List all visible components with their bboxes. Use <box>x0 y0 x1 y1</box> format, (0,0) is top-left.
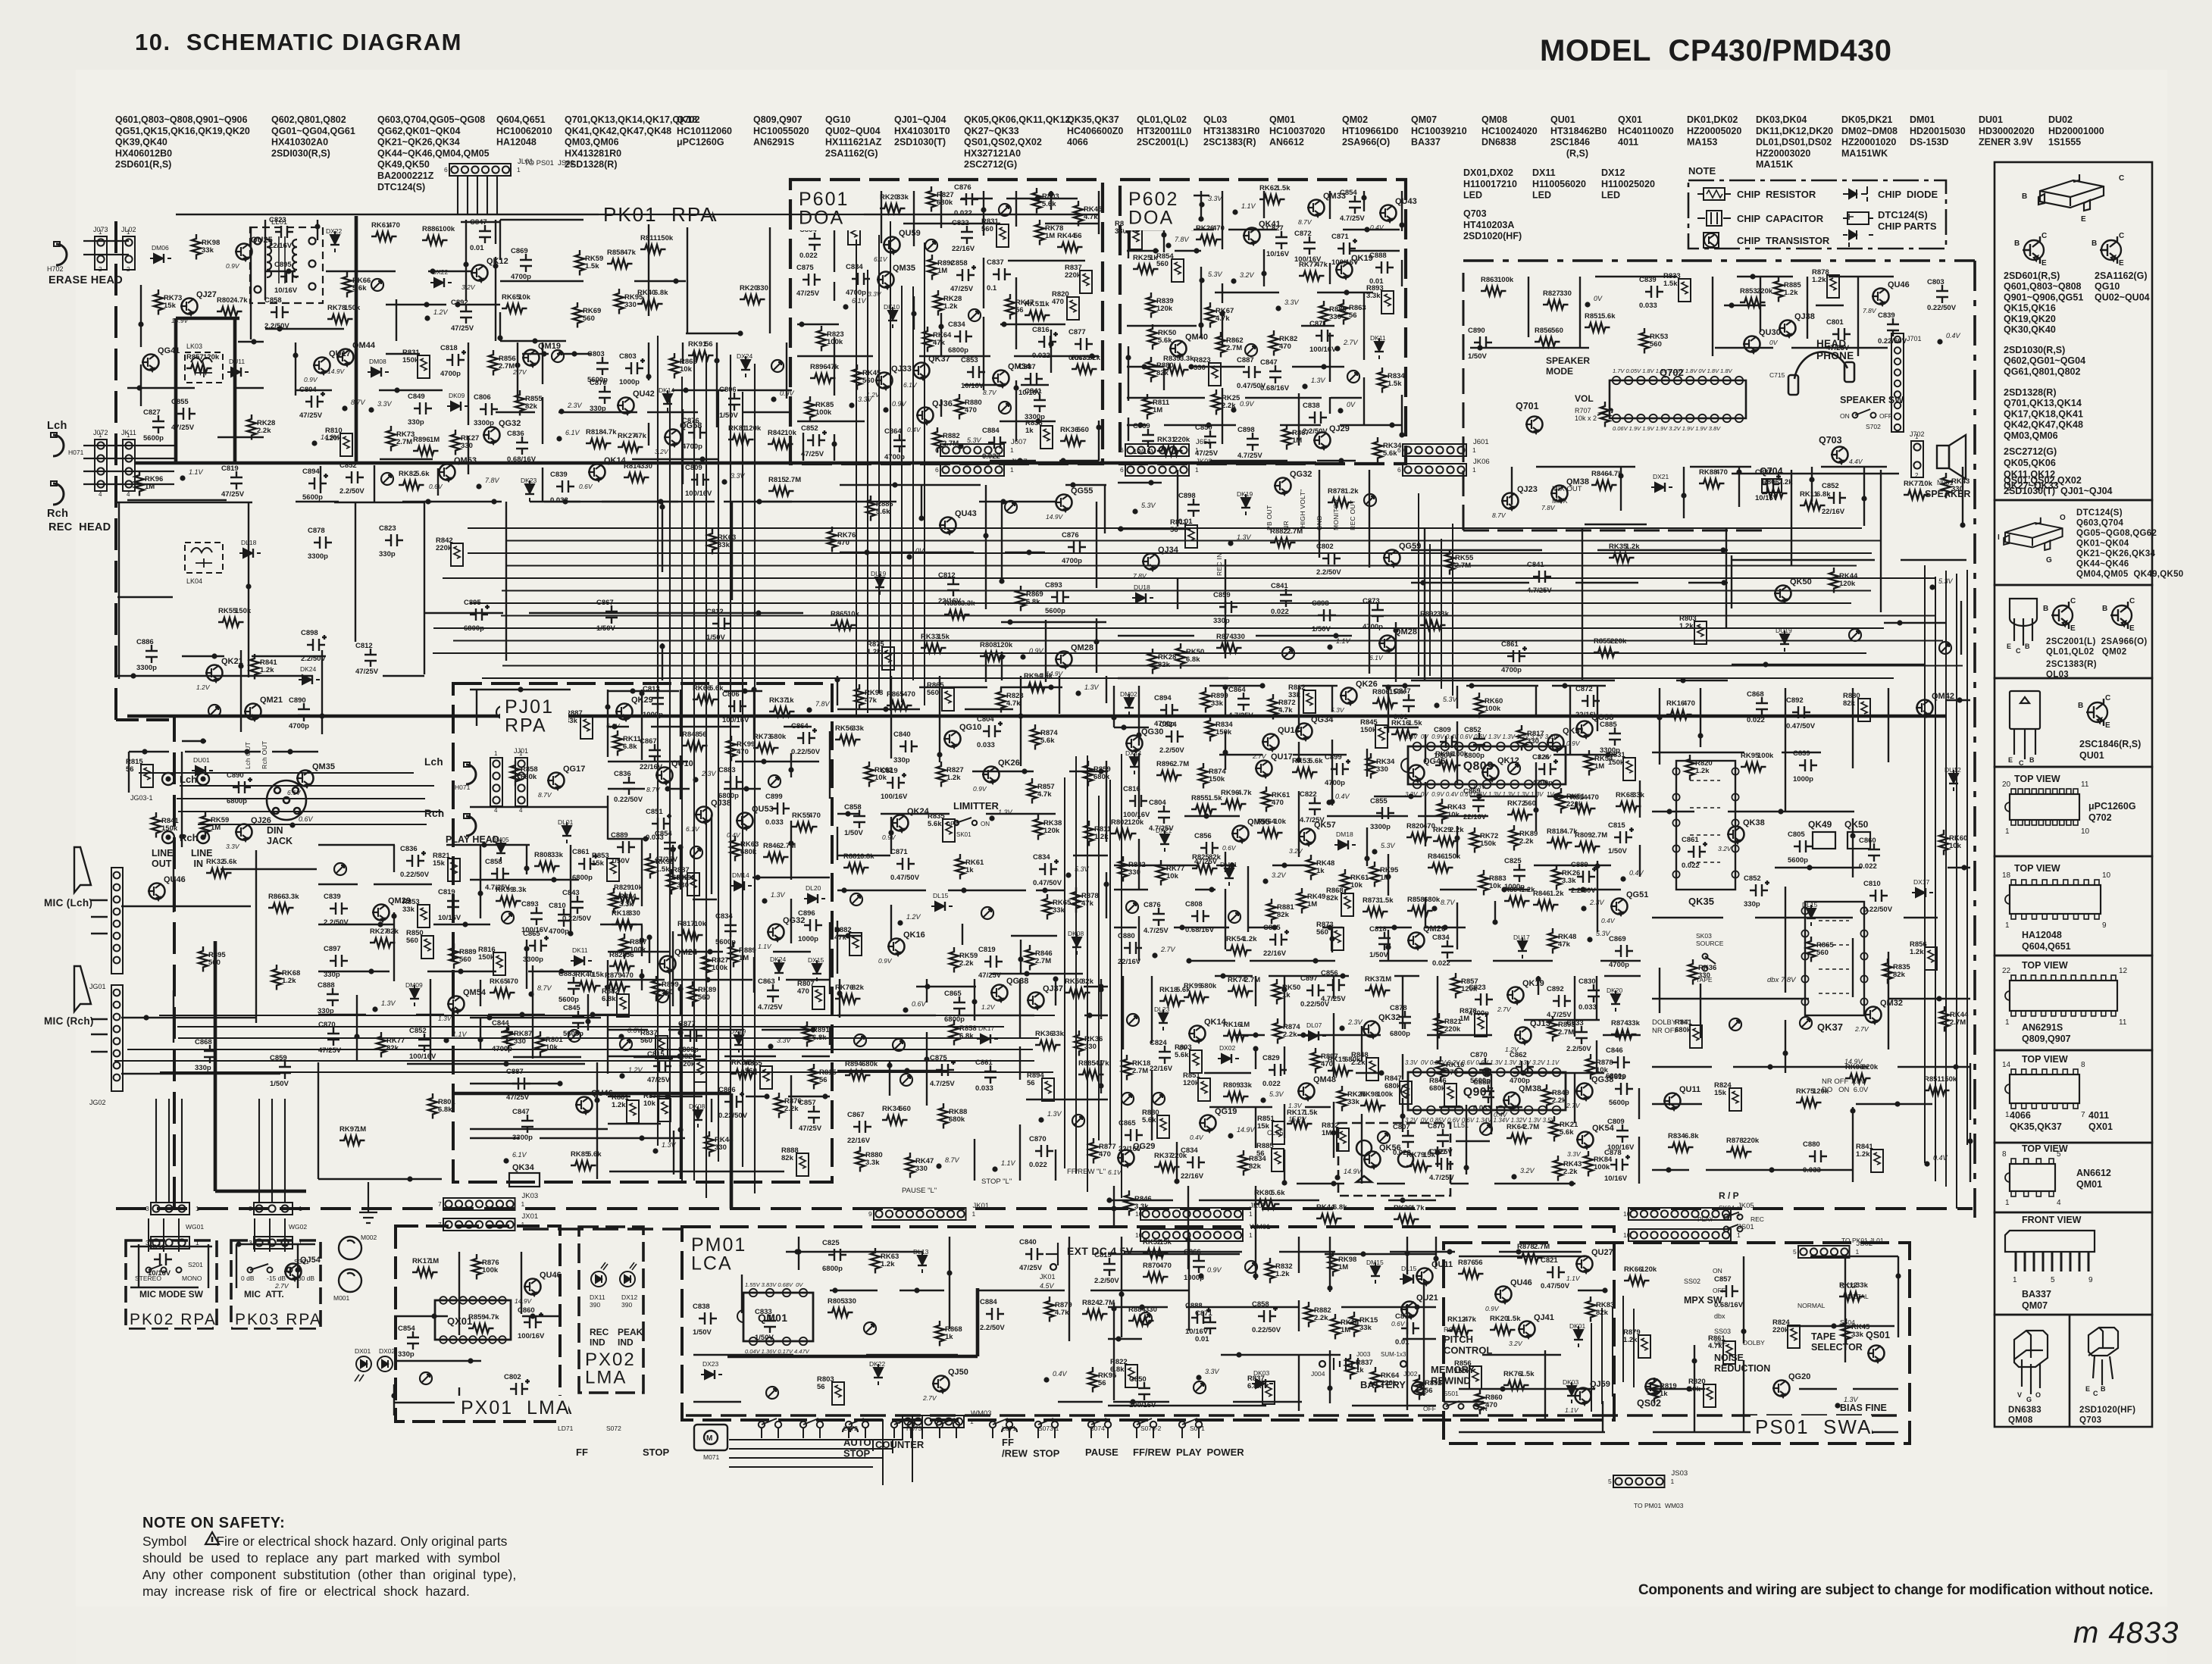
svg-text:2SC2001(L) 2SA966(O): 2SC2001(L) 2SA966(O) <box>2046 637 2148 646</box>
resistor R837 (chip) <box>1080 271 1092 293</box>
svg-text:REC: REC <box>590 1327 609 1337</box>
svg-text:J003: J003 <box>1356 1350 1371 1358</box>
svg-text:330p: 330p <box>1213 617 1230 625</box>
svg-text:5.3V: 5.3V <box>1075 865 1090 873</box>
wire jl01 drop <box>458 176 497 215</box>
svg-text:C839: C839 <box>1878 311 1895 320</box>
svg-text:120k: 120k <box>1641 1265 1657 1274</box>
svg-text:C876: C876 <box>682 417 699 425</box>
svg-text:C812: C812 <box>706 608 724 616</box>
svg-text:33k: 33k <box>1856 1281 1869 1290</box>
resistor RK64 <box>923 327 932 352</box>
svg-text:330: 330 <box>756 284 768 292</box>
svg-text:82k: 82k <box>525 402 538 411</box>
svg-text:470: 470 <box>388 221 400 230</box>
svg-text:2.7M: 2.7M <box>396 438 412 446</box>
svg-text:RK37: RK37 <box>1365 975 1383 984</box>
svg-text:DL18: DL18 <box>241 539 257 546</box>
transistor QJ26 <box>235 824 252 842</box>
wire <box>296 342 792 502</box>
svg-text:E: E <box>2008 756 2013 764</box>
resistor RK78 <box>327 314 353 324</box>
svg-text:JS01: JS01 <box>1738 1223 1754 1231</box>
diode DK24 <box>774 959 784 981</box>
board PK02 RPA <box>126 1240 217 1328</box>
connector WM01 <box>1140 1229 1243 1241</box>
svg-text:4.7k: 4.7k <box>1095 1059 1109 1068</box>
svg-text:2.7M: 2.7M <box>1244 976 1260 984</box>
capacitor C869 <box>1142 429 1154 447</box>
capacitor C807 <box>1402 1130 1414 1148</box>
resistor RK44 <box>1316 1214 1342 1223</box>
svg-text:S072: S072 <box>606 1425 621 1432</box>
svg-text:C818: C818 <box>1369 925 1387 934</box>
node junctions <box>605 687 828 1099</box>
svg-text:DX23: DX23 <box>702 1360 719 1368</box>
svg-text:C876: C876 <box>1062 531 1079 540</box>
svg-text:2.2/50V: 2.2/50V <box>324 918 349 927</box>
svg-text:3.3k: 3.3k <box>1180 355 1194 363</box>
diode DL15 <box>931 902 953 911</box>
svg-text:J601: J601 <box>1473 438 1489 446</box>
svg-text:4.7k: 4.7k <box>1037 790 1052 799</box>
svg-text:QU46: QU46 <box>1510 1278 1532 1287</box>
svg-text:0V: 0V <box>1594 295 1603 302</box>
svg-text:560: 560 <box>1650 340 1662 349</box>
svg-text:QG10: QG10 <box>959 723 981 732</box>
svg-text:DL15: DL15 <box>933 892 949 899</box>
svg-text:-15 dB: -15 dB <box>267 1275 286 1282</box>
svg-text:C852: C852 <box>1744 874 1761 883</box>
svg-text:R879: R879 <box>605 971 622 980</box>
svg-text:10k: 10k <box>1166 872 1179 880</box>
wire <box>797 191 1099 461</box>
LED DX11 <box>591 1262 608 1287</box>
svg-text:SK01: SK01 <box>956 831 971 838</box>
svg-text:R809: R809 <box>1223 1081 1241 1090</box>
svg-text:33k: 33k <box>1288 691 1301 699</box>
svg-text:R863: R863 <box>1481 276 1498 284</box>
wire bundle mid horizontal <box>433 528 1963 678</box>
transistor QU46 <box>524 1279 541 1296</box>
svg-text:0.22/50V: 0.22/50V <box>614 796 643 804</box>
svg-text:2SC2001(L): 2SC2001(L) <box>1137 137 1188 148</box>
svg-text:5.6k: 5.6k <box>415 470 430 478</box>
svg-text:0.22/50V: 0.22/50V <box>1252 1326 1281 1334</box>
trimmer <box>1347 371 1359 383</box>
svg-text:C851: C851 <box>646 808 663 816</box>
transistor QM38 <box>1503 1093 1520 1110</box>
resistor R896 <box>810 374 836 383</box>
trimmer <box>381 473 393 485</box>
resistor RK94 <box>1024 683 1050 692</box>
svg-text:2SDI030(R,S): 2SDI030(R,S) <box>271 148 330 158</box>
svg-text:33k: 33k <box>852 724 865 733</box>
svg-text:1: 1 <box>1472 466 1476 474</box>
capacitor C846 <box>1612 1056 1630 1068</box>
connector JS01 <box>1628 1229 1731 1241</box>
resistor R820 (chip) <box>1704 1384 1716 1407</box>
node junctions <box>639 1135 644 1140</box>
svg-text:10k x 2: 10k x 2 <box>1575 414 1597 422</box>
capacitor C872 <box>1303 236 1316 255</box>
resistor R830 <box>944 610 970 619</box>
svg-text:4700p: 4700p <box>1501 666 1522 674</box>
svg-text:C803: C803 <box>1927 278 1944 286</box>
board PX01 LMA <box>396 1226 560 1422</box>
wire bundle vertical mid drop <box>1065 754 1122 1198</box>
board PJ01 RPA <box>453 683 832 1182</box>
resistor R821 (chip) <box>448 859 460 881</box>
svg-text:330: 330 <box>1128 868 1140 877</box>
svg-text:RK11: RK11 <box>1800 490 1818 499</box>
svg-text:1k: 1k <box>1282 991 1291 999</box>
svg-text:MA151K: MA151K <box>1756 159 1793 170</box>
svg-text:C892: C892 <box>451 299 468 307</box>
capacitor C887 <box>1761 474 1781 490</box>
svg-text:1M: 1M <box>1460 1015 1469 1023</box>
svg-text:5.3V: 5.3V <box>1443 696 1458 703</box>
svg-text:DL19: DL19 <box>871 570 887 577</box>
svg-text:7.8V: 7.8V <box>1133 572 1147 580</box>
svg-text:C884: C884 <box>980 1298 997 1306</box>
svg-text:6.1V: 6.1V <box>512 1151 527 1159</box>
capacitor C883 <box>568 977 580 995</box>
svg-text:C823: C823 <box>269 216 286 224</box>
svg-text:1.3V: 1.3V <box>1237 533 1252 541</box>
svg-text:82k: 82k <box>852 984 865 992</box>
svg-text:8.7V: 8.7V <box>537 984 552 992</box>
svg-text:2.2/50V: 2.2/50V <box>301 655 326 663</box>
svg-text:3.3V: 3.3V <box>1284 299 1300 306</box>
mic jack Rch <box>74 966 123 1091</box>
transistor QK21 <box>205 665 223 683</box>
wire bundle lower horizontal <box>114 1015 1055 1072</box>
capacitor C853 <box>967 366 985 378</box>
svg-text:2.7M: 2.7M <box>1099 1299 1115 1307</box>
svg-text:R848: R848 <box>682 730 699 739</box>
svg-text:2.7M: 2.7M <box>1591 831 1607 840</box>
resistor R883 <box>1479 870 1488 896</box>
svg-text:0.033: 0.033 <box>1639 302 1657 310</box>
svg-text:C869: C869 <box>1133 422 1150 430</box>
resistor RK44 <box>1940 1006 1949 1032</box>
svg-text:J073: J073 <box>93 226 108 233</box>
svg-text:C887: C887 <box>506 1068 524 1076</box>
play head <box>464 762 476 784</box>
capacitor C876 <box>1153 908 1165 926</box>
svg-text:1.2k: 1.2k <box>260 666 274 674</box>
svg-text:1.1V: 1.1V <box>189 468 204 476</box>
resistor R886 <box>866 496 875 521</box>
diode DL15 <box>1807 905 1816 926</box>
svg-text:0.033: 0.033 <box>977 741 995 749</box>
svg-text:1.5k: 1.5k <box>1276 184 1291 192</box>
resistor RK63 <box>871 1248 880 1274</box>
svg-text:DU19: DU19 <box>1776 627 1792 634</box>
svg-text:4.7k: 4.7k <box>1608 470 1622 478</box>
trimmer <box>1153 1093 1165 1105</box>
capacitor C889 <box>617 841 635 853</box>
svg-text:RK12: RK12 <box>1839 1281 1857 1290</box>
svg-text:0.4V: 0.4V <box>907 426 921 433</box>
svg-text:1k: 1k <box>965 866 974 874</box>
svg-text:QK19,QK20: QK19,QK20 <box>2004 314 2056 324</box>
capacitor C883 <box>724 776 743 788</box>
svg-text:0.4V: 0.4V <box>1370 224 1384 231</box>
resistor R823 <box>996 687 1006 713</box>
resistor R841 <box>152 812 161 838</box>
svg-text:C833: C833 <box>1566 1019 1584 1027</box>
svg-text:390: 390 <box>590 1301 600 1309</box>
svg-text:LINE: LINE <box>152 848 173 859</box>
svg-text:AN6291S: AN6291S <box>753 137 794 148</box>
svg-text:150k: 150k <box>1360 726 1377 734</box>
svg-text:2: 2 <box>99 266 102 273</box>
svg-text:1k: 1k <box>945 1333 953 1341</box>
svg-text:S201: S201 <box>188 1261 203 1268</box>
resistor RK48 <box>1548 928 1557 954</box>
svg-text:4011: 4011 <box>2088 1110 2109 1121</box>
svg-text:QK42,QK47,QK48: QK42,QK47,QK48 <box>2004 420 2083 430</box>
svg-text:QM54: QM54 <box>463 988 487 997</box>
svg-text:QK44~QK46: QK44~QK46 <box>2076 560 2129 569</box>
svg-text:S501: S501 <box>1444 1390 1459 1397</box>
capacitor C839 <box>330 902 348 915</box>
svg-text:3.3k: 3.3k <box>1562 877 1576 885</box>
svg-text:1.2V: 1.2V <box>196 683 211 691</box>
capacitor C861 <box>578 854 598 870</box>
svg-text:1.2k: 1.2k <box>1910 948 1924 956</box>
svg-text:R834: R834 <box>1668 1132 1685 1140</box>
capacitor C840 <box>1025 1248 1043 1260</box>
svg-text:C805: C805 <box>1788 830 1805 839</box>
svg-text:C888: C888 <box>1185 1302 1203 1310</box>
resistor R801 (chip) <box>627 1100 639 1123</box>
svg-text:220k: 220k <box>1174 436 1190 444</box>
svg-text:DTC124(S): DTC124(S) <box>1878 209 1928 221</box>
transistor QU43 <box>1379 205 1397 223</box>
capacitor C802 <box>1322 552 1341 565</box>
svg-text:47/25V: 47/25V <box>799 1124 822 1133</box>
resistor RK36 <box>1075 1031 1084 1056</box>
svg-text:HA12048: HA12048 <box>496 137 537 148</box>
svg-text:RK40: RK40 <box>637 289 655 297</box>
svg-text:150k: 150k <box>1444 852 1461 861</box>
svg-text:QU11: QU11 <box>1431 1260 1453 1269</box>
svg-text:C876: C876 <box>1395 1312 1413 1321</box>
node junctions <box>143 1015 149 1020</box>
wire <box>470 1131 784 1174</box>
svg-text:6.8k: 6.8k <box>1333 1203 1347 1212</box>
svg-text:QM28: QM28 <box>1394 627 1417 637</box>
svg-text:3.2V: 3.2V <box>1509 1340 1523 1347</box>
svg-text:680k: 680k <box>672 874 689 882</box>
svg-text:QM21: QM21 <box>260 696 283 705</box>
svg-text:4: 4 <box>519 807 523 814</box>
capacitor C890 <box>233 777 252 793</box>
svg-text:QU46: QU46 <box>1888 280 1910 289</box>
svg-text:PK03 RPA: PK03 RPA <box>235 1311 322 1328</box>
connector JS02b <box>1798 1246 1850 1258</box>
resistor R838 (chip) <box>1040 426 1053 449</box>
capacitor C865 <box>529 936 549 952</box>
connector JL01 top <box>449 164 511 176</box>
resistor RK96 <box>135 471 144 496</box>
svg-text:8.7V: 8.7V <box>538 791 552 799</box>
diode DL15 <box>1400 1275 1421 1284</box>
svg-text:0.22/50V: 0.22/50V <box>1927 304 1957 312</box>
package DN6383 drawing <box>2014 1331 2048 1394</box>
svg-text:DK05,DK21: DK05,DK21 <box>1841 114 1892 125</box>
svg-text:R818: R818 <box>1547 827 1564 836</box>
svg-text:100k: 100k <box>1452 750 1469 758</box>
resistor RK99 <box>727 736 736 762</box>
svg-text:QJ59: QJ59 <box>1590 1380 1610 1389</box>
svg-text:5.6k: 5.6k <box>1601 312 1616 321</box>
svg-text:Q703: Q703 <box>1463 208 1487 219</box>
resistor RK60 <box>1475 693 1484 718</box>
svg-text:1.55V 3.83V 0.68V 0V: 1.55V 3.83V 0.68V 0V <box>745 1281 803 1288</box>
svg-text:4.7/25V: 4.7/25V <box>930 1080 955 1088</box>
svg-text:DM18: DM18 <box>1336 830 1353 838</box>
svg-text:1000p: 1000p <box>1184 1274 1204 1282</box>
resistor RK14 <box>1331 1314 1340 1340</box>
svg-text:C865: C865 <box>523 930 540 938</box>
svg-text:0 dB: 0 dB <box>241 1275 255 1282</box>
svg-text:Q703: Q703 <box>1819 435 1842 446</box>
capacitor C839 <box>556 480 574 493</box>
capacitor C824 <box>1165 730 1184 743</box>
capacitor C895 <box>280 271 299 283</box>
svg-text:R853: R853 <box>1740 287 1757 296</box>
svg-text:R846: R846 <box>763 842 781 850</box>
svg-text:QG20: QG20 <box>1788 1372 1810 1381</box>
svg-text:R846: R846 <box>1591 470 1609 478</box>
svg-text:1.2k: 1.2k <box>1812 276 1826 284</box>
capacitor C809 <box>691 474 709 486</box>
svg-text:R870: R870 <box>1143 1262 1160 1270</box>
resistor R851 (chip) <box>1272 1121 1284 1144</box>
svg-text:HC10024020: HC10024020 <box>1481 126 1538 136</box>
resistor R815 <box>809 1064 818 1090</box>
svg-text:220k: 220k <box>1610 637 1627 646</box>
resistor R803 (chip) <box>1190 1050 1202 1073</box>
transistor QM48 <box>1297 1084 1315 1101</box>
svg-text:2SD1020(HF): 2SD1020(HF) <box>2079 1406 2135 1415</box>
connector JS03 <box>1613 1475 1665 1487</box>
svg-text:4700p: 4700p <box>1532 779 1553 787</box>
svg-text:R894: R894 <box>845 1060 862 1068</box>
resistor R863 <box>1481 286 1506 296</box>
svg-text:2SC1383(R): 2SC1383(R) <box>2046 660 2097 669</box>
svg-text:QU46: QU46 <box>164 875 186 884</box>
resistor RK27 <box>618 443 643 452</box>
svg-text:3300p: 3300p <box>1370 823 1391 831</box>
svg-text:0.47/50V: 0.47/50V <box>890 874 920 882</box>
svg-text:C872: C872 <box>1294 230 1312 238</box>
wire <box>318 1062 680 1179</box>
svg-text:PAUSE "L": PAUSE "L" <box>902 1187 937 1195</box>
svg-text:C854: C854 <box>398 1325 415 1333</box>
transistor Q703 <box>1831 447 1848 464</box>
resistor R833 (chip) <box>1679 279 1691 302</box>
svg-text:5.6k: 5.6k <box>928 820 942 828</box>
svg-text:6.8k: 6.8k <box>623 743 637 751</box>
svg-text:120k: 120k <box>325 434 342 443</box>
svg-text:82k: 82k <box>1088 354 1101 362</box>
node junctions <box>834 677 1109 976</box>
svg-text:C870: C870 <box>318 1021 336 1029</box>
svg-text:C823: C823 <box>379 524 396 533</box>
svg-text:H110056020: H110056020 <box>1532 179 1586 189</box>
svg-text:3.2V: 3.2V <box>1520 1167 1535 1174</box>
svg-text:1: 1 <box>1472 446 1476 454</box>
svg-text:RK16: RK16 <box>1391 719 1409 727</box>
svg-text:QM40: QM40 <box>1185 333 1208 342</box>
svg-text:1M: 1M <box>1380 874 1390 882</box>
svg-text:680k: 680k <box>1429 1084 1446 1093</box>
diode DM21 <box>1225 865 1234 886</box>
svg-text:1.2k: 1.2k <box>1625 543 1640 551</box>
resistor RK64 <box>1506 1134 1532 1143</box>
svg-text:HC401100Z0: HC401100Z0 <box>1618 126 1674 136</box>
trimmer <box>208 705 221 717</box>
svg-text:3.2V: 3.2V <box>1289 847 1303 855</box>
svg-text:0.9V: 0.9V <box>973 785 987 793</box>
svg-text:C837: C837 <box>987 258 1004 267</box>
legend DTC124 chip parts symbol <box>1843 212 1873 247</box>
svg-text:RK98: RK98 <box>1360 1090 1378 1099</box>
resistor R805 <box>828 1308 853 1317</box>
svg-text:0.9V: 0.9V <box>892 400 907 408</box>
svg-text:QU59: QU59 <box>899 229 921 238</box>
svg-text:Q602,QG01~QG04: Q602,QG01~QG04 <box>2004 355 2085 366</box>
resistor RK88 <box>1699 479 1725 488</box>
resistor RK77 <box>1156 860 1165 886</box>
svg-text:Q601,Q803~Q808,Q901~Q906: Q601,Q803~Q808,Q901~Q906 <box>115 114 247 125</box>
svg-text:C827: C827 <box>1266 224 1284 233</box>
svg-text:120k: 120k <box>1128 818 1144 827</box>
svg-text:C807: C807 <box>1393 1123 1410 1131</box>
svg-text:RK82: RK82 <box>399 470 417 478</box>
svg-text:HD20015030: HD20015030 <box>1910 126 1966 136</box>
wire <box>1652 688 1970 1182</box>
svg-text:R896: R896 <box>810 363 828 371</box>
svg-text:DX01,DX02: DX01,DX02 <box>1463 167 1513 178</box>
resistor RK85 <box>571 1161 596 1170</box>
svg-text:4.7k: 4.7k <box>1278 706 1293 715</box>
resistor RK65 <box>502 304 527 313</box>
capacitor C836 <box>516 436 528 455</box>
svg-text:H071: H071 <box>68 449 84 456</box>
box QK34 <box>509 1173 540 1187</box>
svg-text:220k: 220k <box>1757 287 1773 296</box>
resistor R827 <box>1543 300 1569 309</box>
svg-text:0.47/50V: 0.47/50V <box>1786 722 1816 730</box>
svg-text:7.8V: 7.8V <box>485 477 500 484</box>
svg-text:TOP VIEW: TOP VIEW <box>2014 774 2060 784</box>
transistor QK19 <box>1335 262 1353 280</box>
svg-text:C809: C809 <box>1434 726 1451 734</box>
svg-text:C812: C812 <box>938 571 956 580</box>
capacitor C856 <box>1200 842 1219 854</box>
svg-text:150k: 150k <box>657 234 674 242</box>
svg-text:1k: 1k <box>1041 300 1050 308</box>
resistor R839 <box>1147 292 1156 318</box>
svg-text:22/16V: 22/16V <box>1181 1172 1204 1181</box>
svg-text:DTC124(S): DTC124(S) <box>2076 508 2123 518</box>
